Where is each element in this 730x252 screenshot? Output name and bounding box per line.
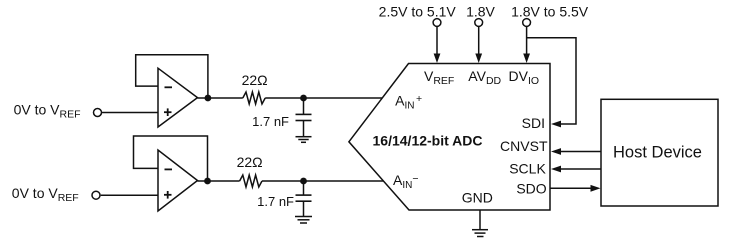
svg-text:SDI: SDI (522, 115, 545, 131)
svg-text:22Ω: 22Ω (237, 154, 263, 170)
svg-text:16/14/12-bit ADC: 16/14/12-bit ADC (373, 132, 483, 148)
svg-text:1.7 nF: 1.7 nF (252, 114, 289, 129)
svg-text:22Ω: 22Ω (242, 72, 268, 88)
svg-text:CNVST: CNVST (500, 138, 548, 154)
svg-text:1.8V: 1.8V (466, 4, 495, 20)
svg-text:1.8V to 5.5V: 1.8V to 5.5V (511, 4, 589, 20)
svg-text:2.5V to 5.1V: 2.5V to 5.1V (379, 4, 457, 20)
svg-text:GND: GND (462, 190, 493, 206)
svg-text:SCLK: SCLK (509, 161, 546, 177)
svg-text:SDO: SDO (516, 181, 546, 197)
svg-text:1.7 nF: 1.7 nF (257, 194, 294, 209)
svg-text:Host Device: Host Device (613, 144, 702, 162)
